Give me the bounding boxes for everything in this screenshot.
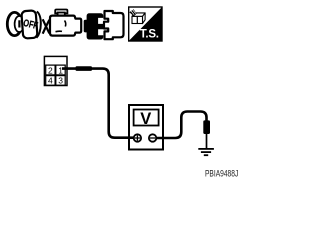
probe P1 bbox=[76, 66, 93, 71]
connector pin view housing bbox=[44, 56, 67, 85]
connector coupler icon bbox=[84, 11, 124, 40]
ignition OFF icon bbox=[7, 10, 41, 38]
figure ID PBIA9488J bbox=[205, 169, 238, 179]
wire W1 from pin 1 to voltmeter bbox=[62, 69, 137, 138]
tester T.S. icon bbox=[129, 7, 162, 41]
pin cell 3 bbox=[56, 76, 65, 86]
pin cell 4 bbox=[46, 76, 55, 86]
terminal - bbox=[149, 134, 156, 141]
svg-text:3: 3 bbox=[58, 76, 63, 86]
svg-text:4: 4 bbox=[48, 76, 53, 86]
pin cell 1 bbox=[56, 65, 65, 75]
voltmeter V1 bbox=[129, 105, 163, 150]
wire W2 from voltmeter to probe P2 bbox=[156, 112, 206, 139]
ground bbox=[198, 149, 214, 155]
pin cell 2 bbox=[46, 65, 55, 75]
disconnect connector icon bbox=[43, 10, 81, 36]
svg-text:T.S.: T.S. bbox=[140, 29, 159, 41]
svg-text:2: 2 bbox=[48, 65, 53, 75]
probe P2 bbox=[203, 120, 210, 134]
terminal + bbox=[134, 134, 141, 141]
svg-text:PBIA9488J: PBIA9488J bbox=[205, 169, 238, 179]
wire to ground bbox=[206, 134, 208, 149]
svg-text:1: 1 bbox=[58, 65, 63, 75]
svg-text:V: V bbox=[140, 110, 151, 128]
